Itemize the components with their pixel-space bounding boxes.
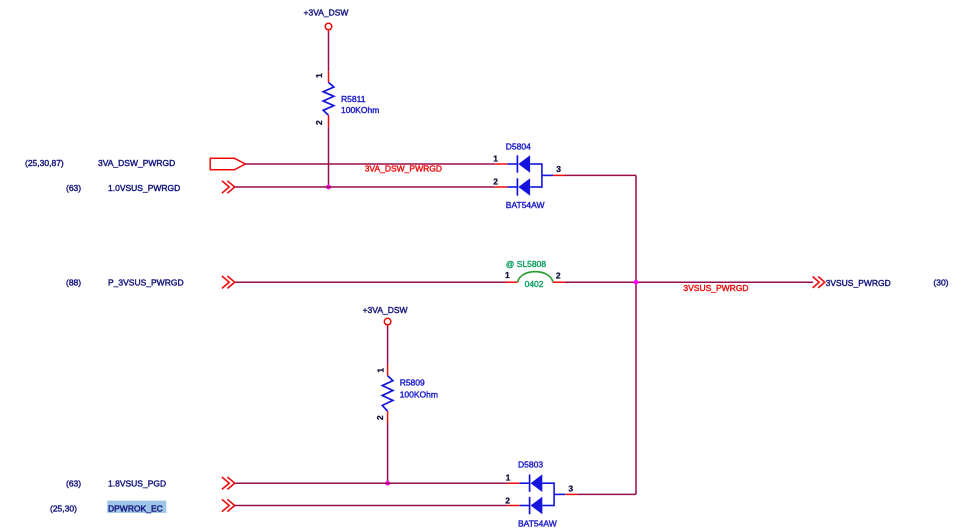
wire power to R5811 pin 1 [328, 32, 330, 72]
svg-text:BAT54AW: BAT54AW [518, 519, 557, 529]
pin 1 [495, 163, 507, 165]
node 3VSUS_PWRGD (30) [826, 277, 949, 287]
svg-text:2: 2 [375, 415, 385, 420]
svg-text:100KOhm: 100KOhm [400, 390, 438, 400]
node (63) 1.8VSUS_PGD [66, 478, 166, 488]
svg-text:D5803: D5803 [518, 460, 543, 470]
pin 3 [554, 493, 565, 495]
svg-text:1: 1 [493, 153, 498, 163]
off-page connector 1.0VSUS_PWRGD [222, 181, 235, 193]
svg-text:+3VA_DSW: +3VA_DSW [304, 8, 349, 18]
svg-text:R5811: R5811 [341, 94, 366, 104]
svg-text:0402: 0402 [525, 279, 544, 289]
pin 2 [507, 505, 519, 507]
svg-text:1: 1 [506, 473, 511, 483]
svg-text:1: 1 [375, 368, 385, 373]
off-page connector 3VA_DSW_PWRGD [210, 158, 245, 170]
junction at R5809 / 1.8VSUS_PGD wire [385, 481, 390, 486]
resistor R5811 [314, 71, 379, 126]
node (63) 1.0VSUS_PWRGD [66, 183, 180, 193]
wire R5809 pin 2 down to junction on 1.8VSUS_PGD [387, 423, 389, 484]
diode B cathode bar [529, 497, 531, 514]
diode A cathode bar [529, 475, 531, 492]
wire R5811 pin 2 down to junction on 1.0VSUS_PWRGD [328, 126, 330, 187]
off-page connector P_3VSUS_PWRGD [222, 276, 235, 288]
diode A cathode bar [516, 155, 518, 172]
svg-text:+3VA_DSW: +3VA_DSW [363, 305, 408, 315]
power symbol +3VA_DSW (bottom) [363, 305, 408, 328]
svg-text:(25,30): (25,30) [50, 503, 77, 513]
svg-text:BAT54AW: BAT54AW [506, 200, 545, 210]
svg-text:3: 3 [568, 484, 573, 494]
wire DPWROK_EC to D5803 pin 2 [235, 505, 508, 507]
svg-text:(30): (30) [933, 277, 948, 287]
svg-text:2: 2 [505, 496, 510, 506]
svg-text:P_3VSUS_PWRGD: P_3VSUS_PWRGD [108, 277, 184, 287]
svg-text:DPWROK_EC: DPWROK_EC [108, 503, 163, 513]
off-page connector 3VSUS_PWRGD (output right) [813, 277, 825, 288]
pin 2 [495, 186, 507, 188]
wire D5803 pin 3 to right bus [577, 493, 636, 495]
svg-text:3VSUS_PWRGD: 3VSUS_PWRGD [683, 283, 748, 293]
wire 1.8VSUS_PGD to D5803 pin 1 [235, 482, 508, 484]
svg-text:1.8VSUS_PGD: 1.8VSUS_PGD [108, 478, 166, 488]
power symbol +3VA_DSW (top) [304, 8, 349, 33]
junction at right bus / 3VSUS_PWRGD wire [634, 280, 639, 285]
common anode bus [541, 163, 543, 188]
svg-text:1: 1 [505, 270, 510, 280]
diode A triangle [518, 155, 530, 173]
ferrite bead SL5808 [505, 259, 565, 289]
svg-text:3: 3 [556, 164, 561, 174]
diode D5804 BAT54AW [493, 141, 565, 210]
wire P_3VSUS_PWRGD to SL5808 pin 1 [235, 281, 506, 283]
diode B cathode bar [516, 178, 518, 195]
svg-text:2: 2 [314, 120, 324, 125]
svg-text:@ SL5808: @ SL5808 [506, 259, 547, 269]
diode B triangle [518, 178, 530, 196]
wire power to R5809 pin 1 [387, 327, 389, 365]
wire D5804 pin 3 to right bus [565, 174, 636, 176]
wire right vertical bus [635, 175, 637, 494]
node (88) P_3VSUS_PWRGD [66, 277, 184, 287]
node (25,30,87) 3VA_DSW_PWRGD [25, 158, 175, 168]
svg-text:3VA_DSW_PWRGD: 3VA_DSW_PWRGD [98, 158, 175, 168]
node (25,30) DPWROK_EC (highlighted) [50, 501, 166, 514]
diode B triangle [531, 497, 543, 515]
wire 3VA_DSW_PWRGD to D5804 pin 1 [245, 163, 495, 165]
off-page connector DPWROK_EC [222, 499, 235, 511]
svg-text:3VA_DSW_PWRGD: 3VA_DSW_PWRGD [365, 163, 442, 173]
wire 1.0VSUS_PWRGD to D5804 pin 2 [235, 186, 496, 188]
common anode bus [553, 482, 555, 506]
svg-text:(88): (88) [66, 277, 81, 287]
svg-text:3VSUS_PWRGD: 3VSUS_PWRGD [826, 278, 891, 288]
junction at R5811 / 1.0VSUS_PWRGD wire [326, 185, 331, 190]
wire SL5808 pin 2 to output [565, 281, 813, 283]
svg-text:(63): (63) [66, 478, 81, 488]
svg-text:1: 1 [314, 73, 324, 78]
svg-text:D5804: D5804 [506, 141, 531, 151]
svg-text:2: 2 [493, 177, 498, 187]
svg-text:R5809: R5809 [400, 377, 425, 387]
pin 1 [507, 482, 519, 484]
diode A triangle [531, 474, 543, 492]
svg-text:1.0VSUS_PWRGD: 1.0VSUS_PWRGD [108, 183, 180, 193]
svg-text:100KOhm: 100KOhm [341, 105, 379, 115]
pin 3 [542, 174, 553, 176]
svg-text:2: 2 [556, 270, 561, 280]
diode D5803 BAT54AW [505, 460, 577, 529]
svg-text:(63): (63) [66, 183, 81, 193]
off-page connector 1.8VSUS_PGD [222, 477, 235, 489]
resistor R5809 [375, 365, 438, 423]
svg-text:(25,30,87): (25,30,87) [25, 158, 64, 168]
